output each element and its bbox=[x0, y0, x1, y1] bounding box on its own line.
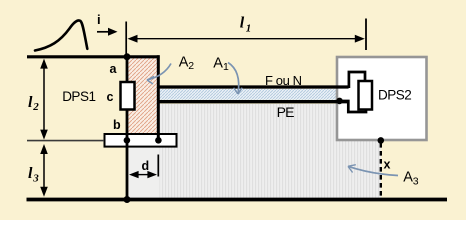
svg-text:PE: PE bbox=[277, 104, 295, 120]
svg-text:2: 2 bbox=[32, 101, 39, 113]
svg-text:3: 3 bbox=[413, 175, 419, 187]
svg-text:DPS2: DPS2 bbox=[378, 88, 411, 103]
svg-text:x: x bbox=[384, 158, 391, 172]
svg-text:i: i bbox=[97, 12, 101, 27]
svg-text:b: b bbox=[113, 118, 121, 132]
svg-text:A: A bbox=[179, 54, 189, 70]
svg-text:l: l bbox=[240, 15, 245, 32]
svg-text:2: 2 bbox=[188, 60, 194, 72]
svg-text:A: A bbox=[213, 55, 223, 71]
svg-text:d: d bbox=[142, 159, 150, 173]
svg-text:c: c bbox=[107, 90, 114, 104]
svg-text:1: 1 bbox=[223, 61, 229, 73]
svg-text:l: l bbox=[28, 94, 33, 111]
svg-text:a: a bbox=[110, 62, 118, 76]
svg-text:A: A bbox=[403, 170, 413, 186]
svg-text:1: 1 bbox=[246, 23, 252, 35]
svg-text:3: 3 bbox=[32, 173, 39, 185]
svg-text:DPS1: DPS1 bbox=[62, 89, 95, 104]
svg-text:F ou N: F ou N bbox=[265, 73, 302, 88]
svg-text:l: l bbox=[28, 165, 33, 182]
